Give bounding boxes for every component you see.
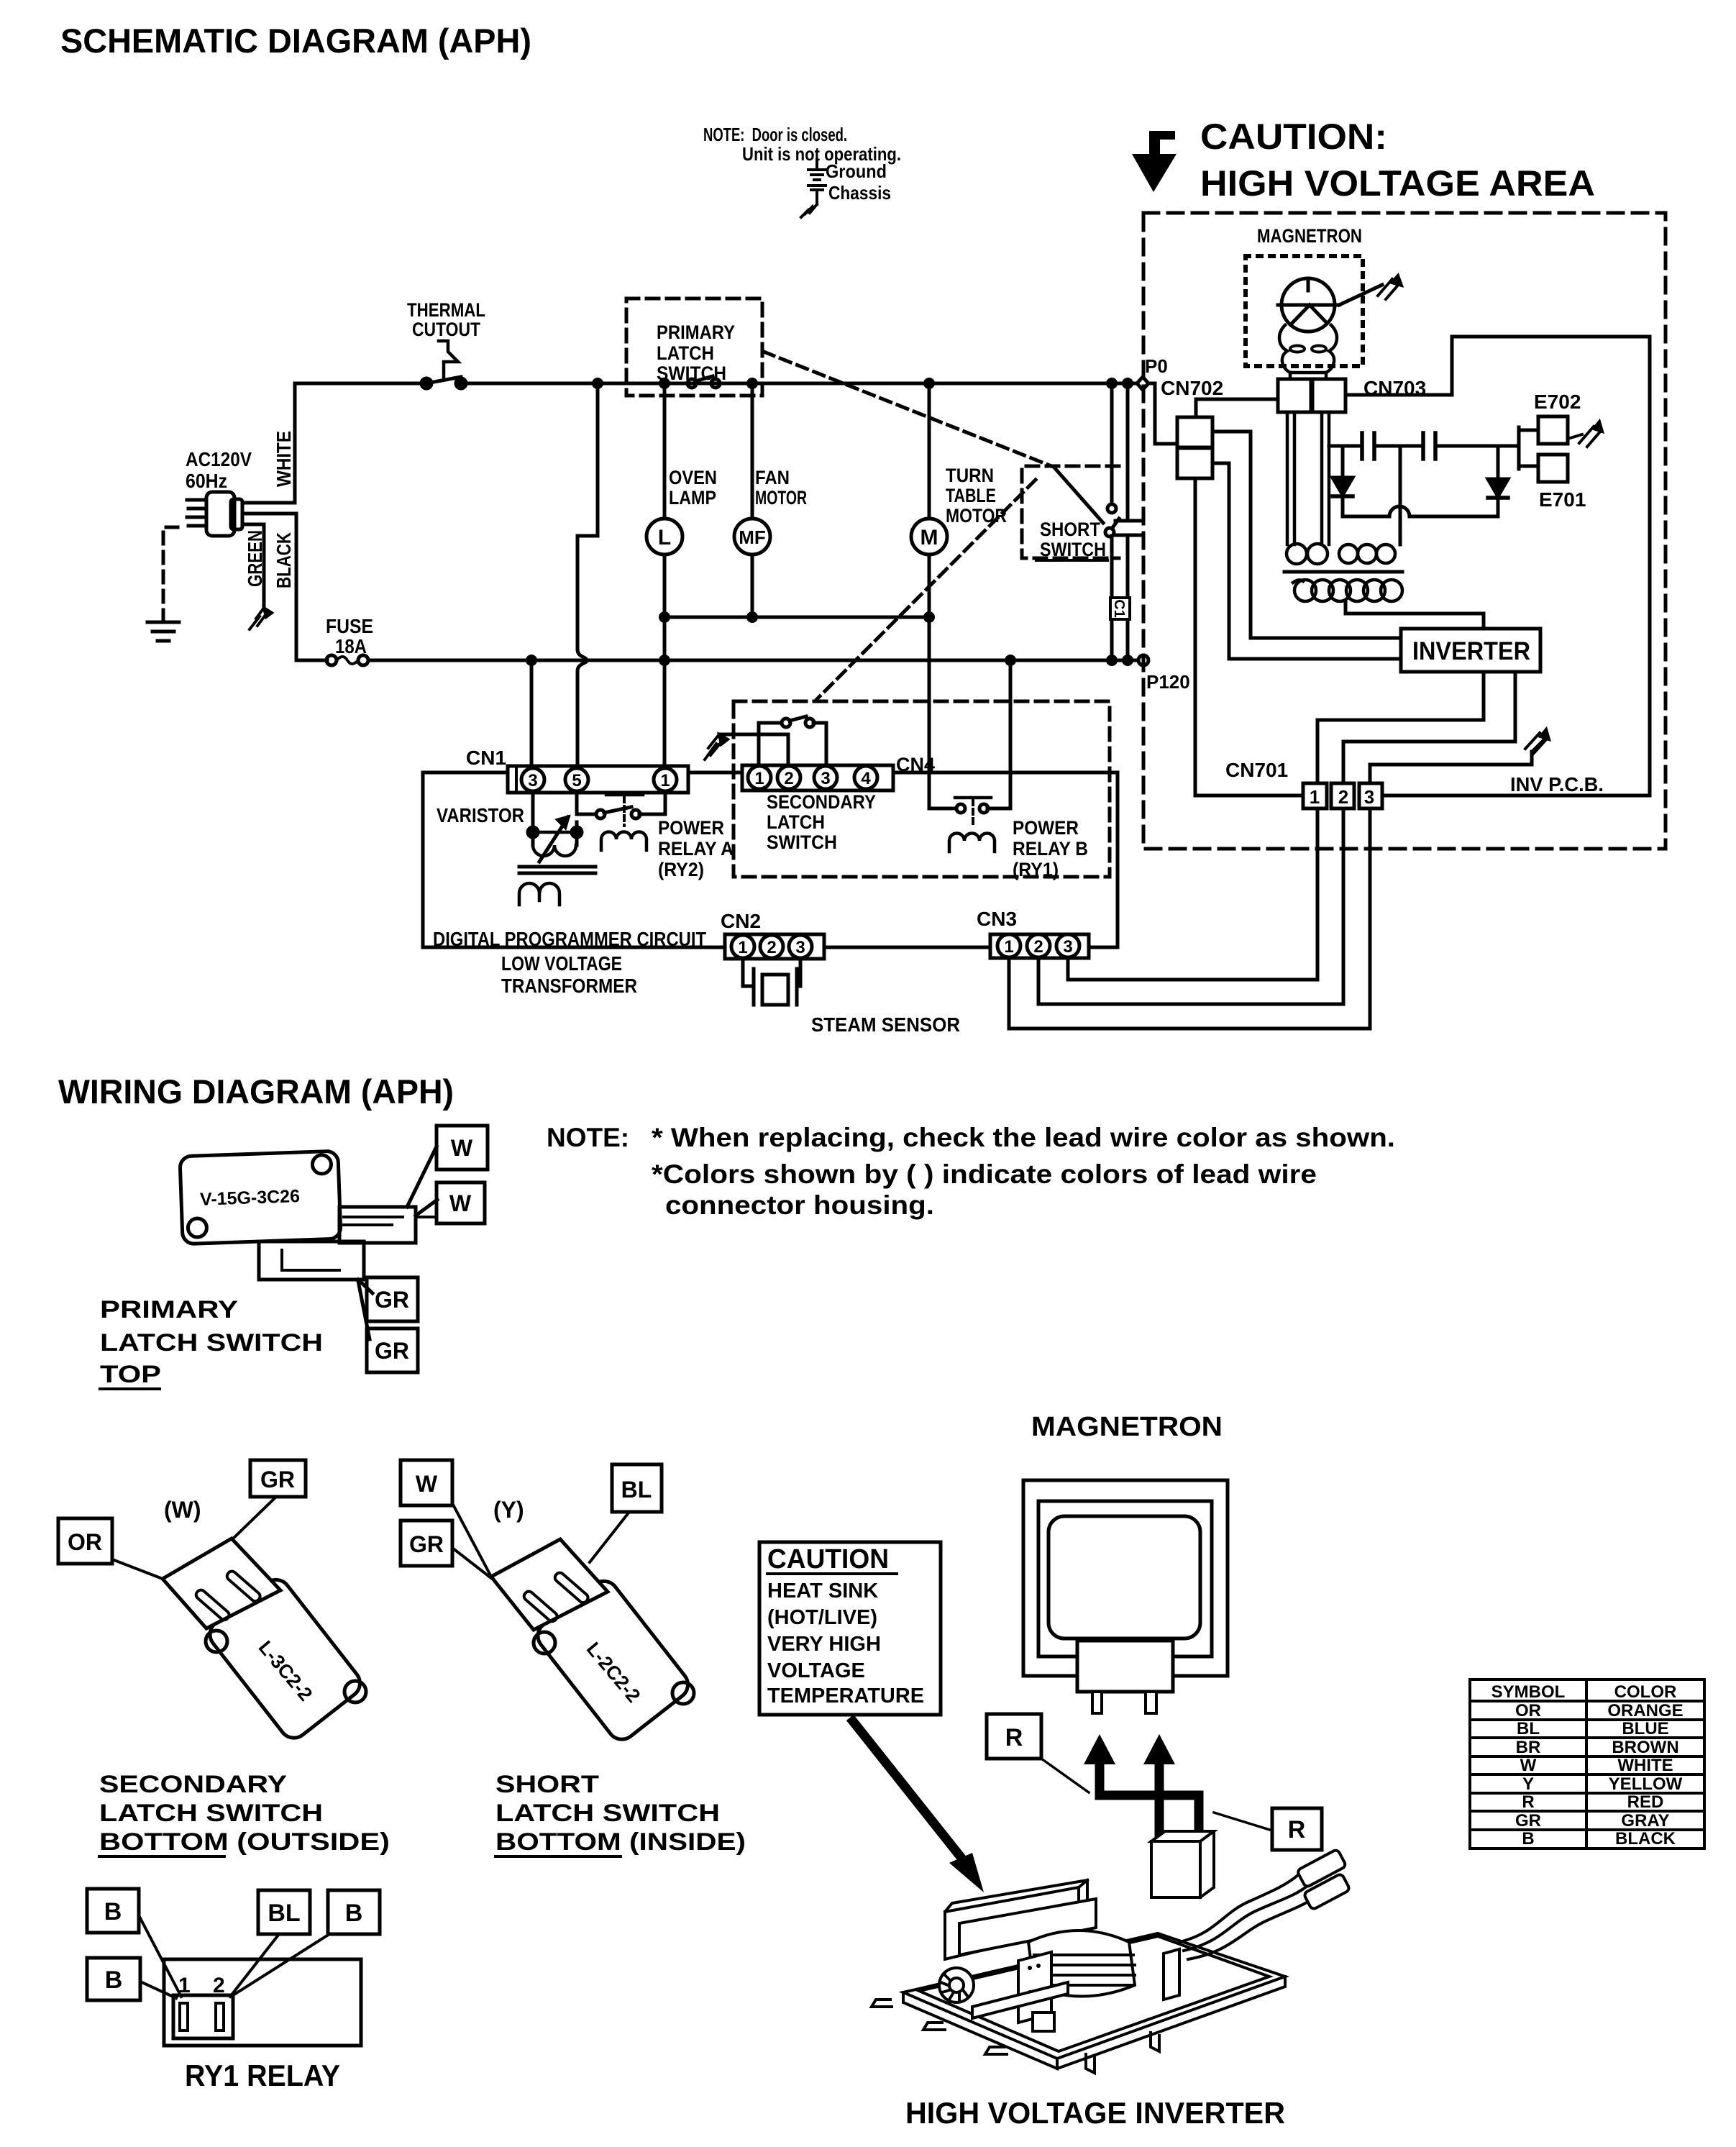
wire: CN701 pin3 with break mark — [1370, 752, 1532, 783]
label box W — [401, 1460, 452, 1505]
label box R (left) — [987, 1714, 1041, 1759]
svg-text:BR: BR — [1516, 1738, 1541, 1757]
svg-text:VARISTOR: VARISTOR — [437, 804, 524, 826]
relay B feeder from neutral bus — [987, 660, 1010, 808]
svg-text:CN2: CN2 — [721, 910, 761, 932]
secondary latch plunger — [163, 1539, 280, 1628]
svg-text:RY1 RELAY: RY1 RELAY — [185, 2059, 340, 2092]
svg-text:B: B — [1522, 1829, 1534, 1849]
svg-text:3: 3 — [1364, 786, 1374, 808]
thermal cutout TC — [421, 341, 466, 388]
svg-text:Chassis: Chassis — [828, 182, 891, 204]
label box R (right) — [1272, 1808, 1322, 1850]
wire: CN702 to magnetron connector — [1196, 399, 1278, 417]
svg-text:GR: GR — [375, 1338, 409, 1364]
small caps — [1033, 2012, 1054, 2031]
dashed diagonal: primary latch to short switch — [764, 352, 1051, 466]
label box GR — [401, 1521, 452, 1566]
svg-text:60Hz: 60Hz — [186, 470, 227, 492]
svg-text:18A: 18A — [335, 635, 367, 657]
capacitor C (right) — [1423, 433, 1435, 459]
svg-text:GR: GR — [260, 1467, 295, 1492]
varistor ZNR — [528, 793, 582, 862]
wire: CN702 top box to inverter — [1212, 432, 1401, 638]
magnetron dotted box — [1246, 256, 1363, 366]
bar component — [972, 1982, 1068, 2018]
low voltage transformer T1 — [519, 867, 595, 905]
CN3 pin3 wire to CN701 pin1 — [1068, 810, 1317, 980]
svg-text:HIGH VOLTAGE AREA: HIGH VOLTAGE AREA — [1200, 163, 1595, 204]
connector CN4 — [742, 765, 893, 790]
wire: bus to CN702 — [1153, 383, 1177, 444]
svg-text:MF: MF — [739, 527, 766, 548]
svg-text:YELLOW: YELLOW — [1609, 1774, 1683, 1794]
svg-text:E702: E702 — [1534, 391, 1581, 413]
svg-text:BROWN: BROWN — [1612, 1738, 1678, 1757]
svg-text:VOLTAGE: VOLTAGE — [767, 1659, 865, 1682]
CN3 pin2 wire to CN701 pin2 — [1038, 810, 1343, 1004]
svg-text:MAGNETRON: MAGNETRON — [1257, 225, 1362, 247]
wavy wires to lugs — [1179, 1874, 1299, 1942]
magnetron figure — [1023, 1480, 1228, 1713]
svg-text:GR: GR — [409, 1531, 444, 1557]
svg-text:*Colors shown by ( ) indicate: *Colors shown by ( ) indicate colors of … — [652, 1159, 1317, 1189]
turntable motor branch wire — [929, 383, 956, 808]
label box GR — [367, 1328, 418, 1372]
svg-text:FUSE: FUSE — [326, 615, 373, 637]
HV transformer primary winding — [1293, 580, 1402, 601]
wire: CN702 to INV PCB left rail — [1194, 478, 1197, 796]
svg-text:P0: P0 — [1145, 355, 1168, 377]
svg-text:WHITE: WHITE — [1617, 1756, 1673, 1775]
svg-text:2: 2 — [767, 938, 776, 957]
mounting tabs — [872, 2000, 1007, 2054]
svg-text:BOTTOM (INSIDE): BOTTOM (INSIDE) — [495, 1828, 746, 1856]
HV transformer filament winding — [1287, 544, 1395, 564]
label box BL — [612, 1464, 662, 1512]
svg-text:CN4: CN4 — [896, 754, 935, 775]
wire white: plug to top bus — [242, 383, 295, 503]
svg-text:HEAT SINK: HEAT SINK — [767, 1580, 878, 1603]
svg-text:3: 3 — [795, 938, 805, 957]
svg-text:DIGITAL PROGRAMMER CIRCUIT: DIGITAL PROGRAMMER CIRCUIT — [433, 928, 706, 950]
high voltage inverter figure — [872, 1849, 1351, 2073]
fan motor branch wire — [751, 383, 754, 617]
svg-text:TURN: TURN — [946, 465, 994, 486]
diode D2 — [1488, 446, 1508, 498]
svg-text:Y: Y — [1522, 1774, 1534, 1794]
fuse F1 18A — [326, 655, 368, 665]
CN3 pin1 wire to CN701 pin3 — [1009, 810, 1370, 1029]
short latch leader wires — [452, 1503, 629, 1578]
primary latch contacts — [687, 376, 720, 388]
svg-text:AC120V: AC120V — [186, 448, 252, 470]
oven lamp branch wire — [663, 383, 667, 767]
svg-text:LAMP: LAMP — [669, 487, 716, 509]
label box GR — [367, 1277, 418, 1321]
INV PCB bus rail — [1195, 794, 1650, 798]
svg-text:E701: E701 — [1539, 488, 1586, 511]
svg-text:CAUTION:: CAUTION: — [1200, 117, 1387, 157]
svg-text:W: W — [416, 1471, 438, 1497]
diode D1 — [1333, 446, 1353, 516]
svg-text:C1: C1 — [1111, 599, 1127, 618]
wire: cap junction to HV winding — [1399, 446, 1402, 544]
svg-text:LATCH: LATCH — [767, 811, 825, 833]
svg-text:(HOT/LIVE): (HOT/LIVE) — [767, 1606, 877, 1629]
svg-text:P120: P120 — [1146, 671, 1190, 693]
short switch contacts and blade — [1054, 468, 1119, 537]
svg-text:RED: RED — [1627, 1792, 1664, 1812]
svg-text:NOTE:: NOTE: — [547, 1123, 629, 1152]
svg-text:BOTTOM (OUTSIDE): BOTTOM (OUTSIDE) — [99, 1828, 390, 1856]
svg-text:CAUTION: CAUTION — [767, 1544, 889, 1574]
svg-text:GR: GR — [375, 1287, 409, 1313]
chassis symbol (legend) — [801, 186, 826, 217]
short latch caption — [495, 1771, 746, 1856]
svg-text:1: 1 — [754, 769, 764, 788]
svg-text:WHITE: WHITE — [273, 431, 295, 487]
svg-text:OVEN: OVEN — [669, 467, 717, 488]
secondary latch leader wires — [112, 1497, 276, 1579]
svg-text:SHORT: SHORT — [1040, 519, 1100, 540]
junction dots on top bus — [592, 378, 1133, 389]
svg-text:CN3: CN3 — [977, 908, 1017, 930]
svg-text:PRIMARY: PRIMARY — [657, 322, 735, 343]
symbol color table — [1470, 1679, 1704, 1849]
svg-text:W: W — [449, 1190, 472, 1216]
svg-text:Ground: Ground — [826, 160, 887, 182]
svg-text:CN701: CN701 — [1225, 759, 1288, 781]
caution heading — [1200, 117, 1595, 204]
svg-text:SECONDARY: SECONDARY — [767, 791, 876, 813]
short switch dashed box — [1022, 466, 1119, 558]
svg-text:LOW VOLTAGE: LOW VOLTAGE — [501, 952, 622, 975]
svg-text:2: 2 — [1338, 786, 1348, 808]
svg-text:LATCH: LATCH — [657, 342, 714, 364]
svg-text:TEMPERATURE: TEMPERATURE — [767, 1685, 924, 1708]
note: lead wire colors — [547, 1123, 1395, 1220]
diode bottom link with hop — [1343, 500, 1498, 516]
svg-text:M: M — [920, 526, 938, 550]
svg-text:(W): (W) — [164, 1497, 201, 1523]
svg-text:BLUE: BLUE — [1622, 1719, 1668, 1738]
label box B — [87, 1889, 139, 1933]
connector CN2 — [725, 934, 824, 959]
svg-text:RELAY B: RELAY B — [1013, 838, 1088, 860]
svg-text:LATCH SWITCH: LATCH SWITCH — [99, 1800, 323, 1827]
svg-text:1: 1 — [178, 1974, 191, 1997]
svg-text:WIRING DIAGRAM (APH): WIRING DIAGRAM (APH) — [58, 1072, 454, 1111]
svg-text:COLOR: COLOR — [1614, 1682, 1677, 1702]
small pcb plate — [1018, 1952, 1051, 2023]
svg-text:3: 3 — [1063, 937, 1072, 957]
earth ground symbol — [147, 622, 179, 641]
svg-text:connector housing.: connector housing. — [665, 1190, 934, 1220]
relay body — [164, 1959, 361, 2046]
svg-text:B: B — [345, 1900, 363, 1927]
red lead arrows to magnetron — [1100, 1761, 1199, 1833]
oven lamp L — [647, 519, 682, 555]
svg-text:INVERTER: INVERTER — [1412, 637, 1530, 665]
node P0 — [1137, 377, 1148, 390]
svg-text:ORANGE: ORANGE — [1607, 1701, 1683, 1720]
label box OR — [58, 1518, 112, 1564]
svg-text:CUTOUT: CUTOUT — [412, 319, 480, 340]
junction dots on lower bus — [526, 655, 1133, 666]
wire black: plug to fuse — [242, 514, 327, 660]
magnetron connector boxes CN703 — [1278, 379, 1311, 412]
secondary latch caption — [99, 1771, 390, 1856]
svg-text:4: 4 — [861, 769, 871, 788]
svg-text:SWITCH: SWITCH — [1040, 539, 1106, 560]
primary latch terminal (bottom, GR wires) — [259, 1241, 373, 1339]
secondary latch switch dashed box — [734, 701, 1110, 877]
HV capacitor line — [1329, 445, 1519, 448]
svg-text:SWITCH: SWITCH — [767, 831, 837, 853]
svg-text:R: R — [1522, 1792, 1534, 1812]
svg-text:BL: BL — [1517, 1719, 1540, 1738]
wire green: plug to chassis — [242, 524, 264, 608]
magnetron V1 symbol — [1278, 278, 1339, 332]
terminal E702 — [1538, 416, 1568, 444]
svg-text:CN702: CN702 — [1161, 377, 1223, 399]
svg-text:(RY1): (RY1) — [1013, 859, 1059, 880]
connector CN701 pins 1 2 3 — [1303, 783, 1382, 808]
svg-text:NOTE: Door is closed.: NOTE: Door is closed. — [703, 124, 847, 145]
primary latch terminal (top, W wires) — [339, 1147, 437, 1243]
high voltage area dashed box — [1143, 213, 1666, 849]
label box W — [437, 1182, 485, 1223]
connector CN3 — [990, 934, 1089, 958]
wire: inverter to CN701 pin2 — [1343, 672, 1515, 783]
svg-text:B: B — [104, 1898, 122, 1925]
svg-text:1: 1 — [738, 938, 747, 957]
svg-text:HIGH VOLTAGE INVERTER: HIGH VOLTAGE INVERTER — [905, 2096, 1285, 2130]
svg-text:SCHEMATIC DIAGRAM (APH): SCHEMATIC DIAGRAM (APH) — [60, 22, 531, 60]
note: door closed — [703, 124, 901, 204]
svg-text:SHORT: SHORT — [495, 1771, 599, 1798]
short latch plunger — [491, 1539, 608, 1630]
board outline — [903, 1933, 1285, 2059]
svg-text:TRANSFORMER: TRANSFORMER — [501, 975, 637, 997]
toroid coil — [939, 1968, 974, 2002]
svg-text:2: 2 — [213, 1974, 225, 1997]
svg-text:(RY2): (RY2) — [658, 859, 704, 880]
CN1 pin3 wire to bus — [530, 660, 534, 767]
dashed diagonal: short switch to secondary latch — [817, 480, 1036, 699]
inverter block U701 — [1401, 629, 1540, 672]
svg-text:SECONDARY: SECONDARY — [99, 1771, 287, 1798]
svg-text:POWER: POWER — [1013, 817, 1079, 839]
dashed earth wire — [163, 527, 178, 620]
svg-text:1: 1 — [660, 771, 670, 790]
svg-text:(Y): (Y) — [493, 1497, 524, 1523]
heatsink wall — [945, 1880, 1087, 1959]
svg-text:2: 2 — [784, 769, 793, 788]
primary latch switch figure (V-15G-3C26) — [180, 1151, 341, 1244]
wire lugs — [1297, 1849, 1346, 1888]
wire break mark at secondary latch — [705, 734, 728, 760]
svg-text:3: 3 — [821, 769, 830, 788]
svg-text:PRIMARY: PRIMARY — [100, 1296, 238, 1323]
transformer block — [1028, 1931, 1135, 1997]
svg-text:LATCH SWITCH: LATCH SWITCH — [100, 1329, 323, 1357]
power relay B contacts (RY1) — [949, 798, 995, 852]
svg-text:OR: OR — [68, 1529, 102, 1555]
svg-text:SYMBOL: SYMBOL — [1491, 1682, 1566, 1702]
wire: CN702 bottom box to inverter — [1212, 463, 1401, 659]
svg-text:GRAY: GRAY — [1621, 1811, 1669, 1831]
primary latch switch S1 (dashed box) — [626, 298, 762, 396]
connector CN702 — [1177, 417, 1212, 478]
chassis mark on green wire — [250, 608, 272, 629]
svg-text:TABLE: TABLE — [946, 485, 996, 506]
E702/E701 terminal bracket — [1519, 427, 1538, 469]
CN1 pin1 wires (to relay A right contact) — [639, 792, 665, 814]
label box B — [328, 1890, 380, 1934]
secondary latch switch contacts — [719, 716, 826, 767]
hot feeder: bus to CN1 pin5 (with jog and bus hop) — [577, 383, 598, 767]
svg-text:RELAY A: RELAY A — [658, 838, 734, 860]
svg-text:R: R — [1288, 1816, 1306, 1843]
turntable motor M — [911, 519, 947, 555]
secondary latch body — [204, 1574, 366, 1743]
component bottoms wire — [664, 616, 929, 619]
power relay A contacts (RY2) — [577, 795, 647, 850]
terminal E701 — [1538, 455, 1568, 482]
filament leads (double lines) — [1287, 412, 1329, 544]
svg-text:MAGNETRON: MAGNETRON — [1031, 1412, 1223, 1442]
svg-text:BLACK: BLACK — [273, 532, 295, 588]
svg-text:W: W — [1520, 1756, 1537, 1775]
caution arrow glyph — [1132, 131, 1177, 192]
svg-text:V-15G-3C26: V-15G-3C26 — [200, 1186, 301, 1210]
svg-text:THERMAL: THERMAL — [407, 299, 485, 321]
label box BL — [258, 1890, 310, 1934]
label box W — [437, 1126, 488, 1170]
svg-text:* When replacing, check the le: * When replacing, check the lead wire co… — [652, 1123, 1395, 1152]
svg-text:BL: BL — [268, 1900, 300, 1927]
svg-text:STEAM SENSOR: STEAM SENSOR — [811, 1013, 960, 1036]
svg-text:LATCH SWITCH: LATCH SWITCH — [495, 1800, 720, 1827]
wire: primary to inverter — [1346, 601, 1484, 629]
AC plug J1 — [187, 492, 242, 536]
svg-text:L: L — [658, 526, 671, 550]
magnetron antenna lead with break — [1339, 275, 1402, 305]
svg-text:1: 1 — [1004, 937, 1013, 957]
wire: inverter to CN701 pin1 — [1317, 672, 1484, 783]
svg-text:GR: GR — [1515, 1811, 1541, 1831]
caution box (heat sink) — [759, 1542, 941, 1715]
svg-text:OR: OR — [1515, 1701, 1541, 1720]
wire: CN703 loop to INV PCB right rail — [1346, 337, 1650, 796]
short switch wire (from bus) — [1110, 383, 1114, 660]
svg-text:MOTOR: MOTOR — [755, 487, 807, 509]
big arrow caution to inverter — [853, 1721, 964, 1861]
short latch body — [532, 1575, 694, 1745]
svg-text:TOP: TOP — [100, 1361, 161, 1388]
wire break mark at E702 — [1568, 421, 1602, 447]
svg-text:5: 5 — [572, 771, 581, 790]
wire connector block — [1151, 1831, 1214, 1897]
capacitor C1 — [1110, 521, 1140, 619]
capacitor C (left) — [1362, 433, 1374, 459]
svg-text:2: 2 — [1033, 937, 1043, 957]
lower bus (neutral) — [368, 659, 1142, 662]
fan motor MF — [734, 519, 770, 555]
connector CN1 — [508, 766, 688, 793]
top bus (hot) — [295, 382, 1153, 386]
svg-text:W: W — [451, 1135, 473, 1161]
svg-text:BLACK: BLACK — [1615, 1829, 1676, 1849]
svg-text:1: 1 — [1310, 786, 1320, 808]
svg-text:VERY HIGH: VERY HIGH — [767, 1633, 881, 1656]
svg-text:R: R — [1005, 1724, 1023, 1751]
svg-text:FAN: FAN — [755, 467, 790, 488]
ground symbol (legend) — [808, 160, 826, 180]
magnetron tube body — [1279, 325, 1337, 373]
label box B — [87, 1958, 140, 2000]
svg-text:POWER: POWER — [658, 817, 724, 839]
svg-text:3: 3 — [528, 771, 537, 790]
capacitor C1 wire — [1126, 383, 1130, 660]
label box GR — [250, 1460, 306, 1497]
HV transformer core — [1284, 570, 1402, 574]
relay leader wires — [139, 1915, 329, 1998]
digital programmer circuit board outline — [423, 772, 1118, 947]
svg-text:BL: BL — [621, 1477, 652, 1503]
svg-text:CN1: CN1 — [466, 747, 506, 769]
node P120 — [1138, 655, 1148, 665]
svg-text:B: B — [105, 1966, 123, 1994]
steam sensor — [743, 959, 800, 1005]
svg-text:INV P.C.B.: INV P.C.B. — [1510, 773, 1604, 796]
primary latch caption — [100, 1296, 323, 1388]
